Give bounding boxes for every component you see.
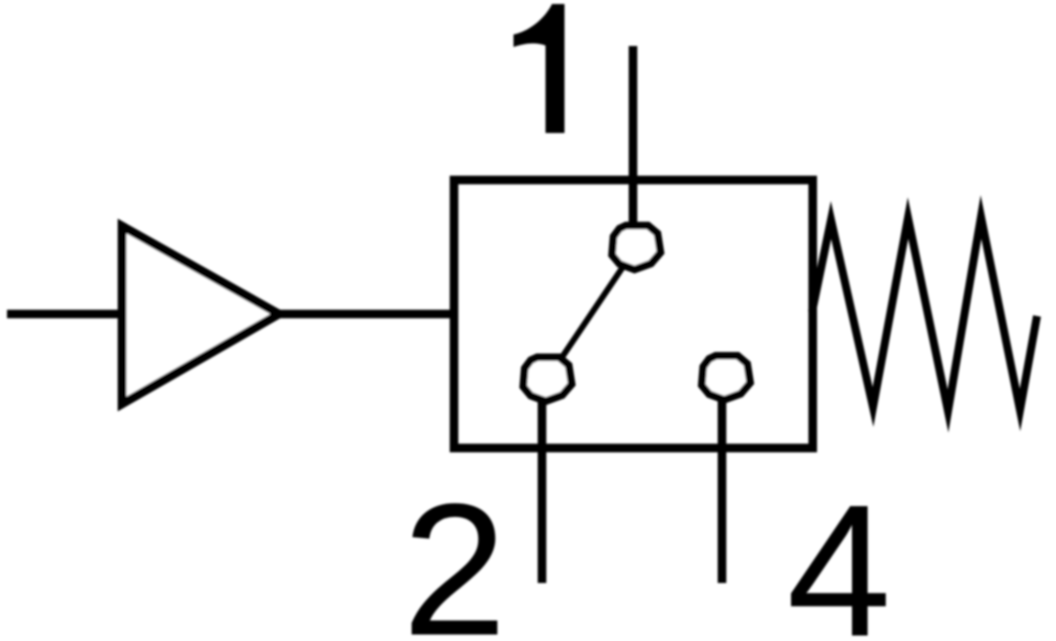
return spring bbox=[812, 217, 1037, 411]
terminal seat port 2 bbox=[523, 357, 572, 401]
wire input left bbox=[7, 310, 124, 319]
wire port 4 bottom bbox=[718, 375, 727, 583]
valve body box bbox=[454, 180, 813, 448]
terminal seat port 1 bbox=[612, 226, 661, 270]
wire triangle tip to valve body bbox=[277, 310, 452, 319]
wire port 1 top bbox=[629, 46, 638, 250]
pilot triangle bbox=[122, 226, 279, 404]
svg-text:2: 2 bbox=[402, 465, 507, 641]
terminal seat port 4 bbox=[702, 356, 751, 400]
wire port 2 bottom bbox=[538, 376, 547, 583]
label port 1 bbox=[514, 4, 565, 133]
contact flow line 2 to 1 bbox=[547, 248, 636, 380]
svg-text:4: 4 bbox=[787, 466, 892, 641]
